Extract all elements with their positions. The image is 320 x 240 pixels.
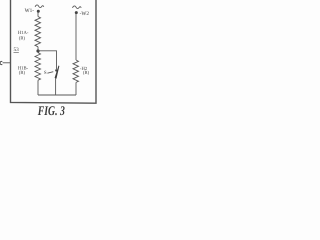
svg-text:-W2: -W2 bbox=[80, 11, 90, 17]
wire junction to switch bbox=[38, 51, 57, 70]
resistor H1B bbox=[35, 53, 41, 81]
wire switch to bottom bbox=[55, 78, 57, 95]
svg-text:(R): (R) bbox=[19, 70, 26, 76]
label cropped glyph at left edge bbox=[0, 61, 2, 64]
wire H2 to bottom bbox=[75, 82, 77, 95]
resistor H2 bbox=[73, 60, 79, 82]
lead line of label S bbox=[47, 72, 53, 74]
switch S top contact bbox=[55, 69, 57, 71]
svg-text:S: S bbox=[44, 70, 47, 76]
svg-text:W1-: W1- bbox=[25, 8, 35, 14]
enclosure box 53 bbox=[11, 0, 97, 103]
node W2 terminal bbox=[75, 11, 78, 14]
svg-text:53: 53 bbox=[14, 47, 20, 53]
svg-text:(R): (R) bbox=[83, 70, 90, 76]
wire node to resistor H1A bbox=[37, 13, 39, 17]
wire H1B to bottom bbox=[37, 80, 39, 95]
svg-text:H1A-: H1A- bbox=[18, 30, 29, 36]
wire node to resistor H2 bbox=[75, 14, 77, 60]
wire right branch top break squiggle bbox=[73, 6, 82, 9]
lead line from cropped label at left edge bbox=[3, 62, 11, 64]
switch S blade bbox=[55, 66, 60, 79]
wire H1A to junction bbox=[37, 47, 39, 50]
svg-text:FIG. 3: FIG. 3 bbox=[37, 103, 65, 118]
svg-text:(R): (R) bbox=[19, 35, 26, 41]
wire left branch top break squiggle bbox=[35, 5, 44, 8]
resistor H1A bbox=[35, 17, 41, 47]
wire bottom inner bbox=[38, 94, 76, 96]
node W1 terminal bbox=[37, 10, 40, 13]
junction node bbox=[36, 49, 39, 52]
